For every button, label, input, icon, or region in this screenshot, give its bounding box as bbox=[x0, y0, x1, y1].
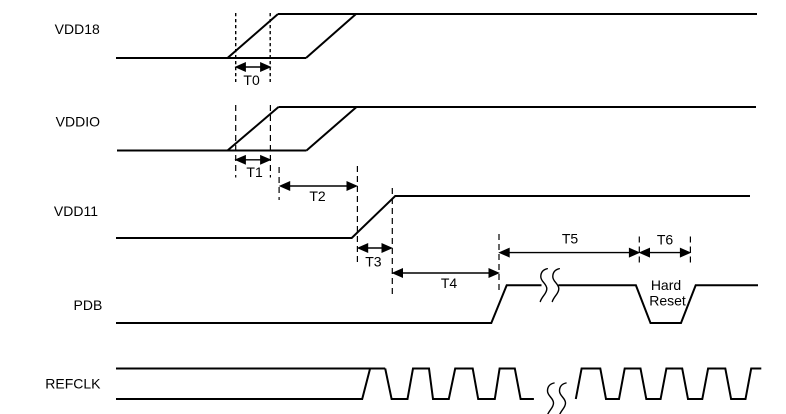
svg-text:T0: T0 bbox=[243, 72, 260, 88]
svg-text:VDDIO: VDDIO bbox=[56, 114, 100, 130]
svg-text:T3: T3 bbox=[365, 254, 382, 270]
svg-text:VDD11: VDD11 bbox=[54, 203, 98, 219]
svg-text:T2: T2 bbox=[309, 188, 326, 204]
svg-text:T4: T4 bbox=[441, 275, 458, 291]
svg-text:Hard: Hard bbox=[651, 277, 681, 293]
svg-text:PDB: PDB bbox=[74, 297, 103, 313]
svg-text:T5: T5 bbox=[562, 231, 579, 247]
svg-text:REFCLK: REFCLK bbox=[45, 376, 101, 392]
svg-text:T1: T1 bbox=[246, 164, 263, 180]
svg-text:T6: T6 bbox=[657, 232, 674, 248]
svg-text:VDD18: VDD18 bbox=[55, 21, 100, 37]
svg-text:Reset: Reset bbox=[649, 293, 686, 309]
